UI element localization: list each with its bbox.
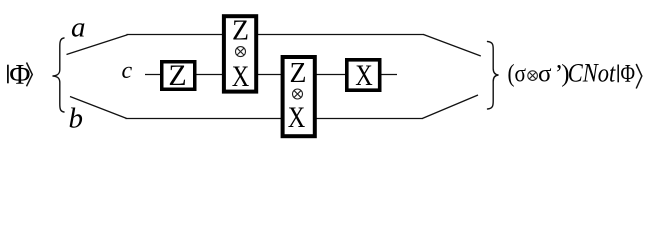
svg-text:a: a [71,12,86,44]
svg-text:Z: Z [232,16,249,47]
svg-text:Z: Z [290,58,307,89]
svg-text:X: X [288,101,306,134]
svg-text:(σ: (σ [508,61,527,88]
svg-text:X: X [355,59,373,92]
svg-text:b: b [69,103,84,135]
svg-text:X: X [232,60,250,93]
svg-text:σ: σ [538,61,552,88]
svg-text:Z: Z [168,59,186,92]
svg-text:CNot: CNot [568,59,616,88]
svg-text:Φ: Φ [621,61,636,88]
svg-text:c: c [122,58,133,84]
